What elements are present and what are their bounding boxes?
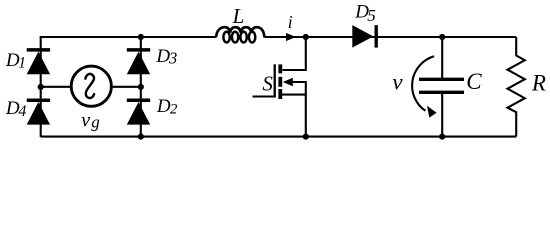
wire bottom rail xyxy=(41,136,517,138)
diode D1 xyxy=(27,50,50,74)
diode D2 xyxy=(127,100,150,124)
svg-text:i: i xyxy=(288,12,293,32)
diode D5 xyxy=(352,25,376,47)
svg-text:S: S xyxy=(262,71,273,95)
node A junction dot top xyxy=(303,34,309,40)
inductor L xyxy=(216,27,265,42)
wire bridge right rail xyxy=(140,37,142,137)
svg-text:R: R xyxy=(531,71,546,96)
label D5 xyxy=(354,2,376,26)
current arrow i xyxy=(286,33,296,41)
resistor R xyxy=(508,37,525,137)
node junction dot D3 top xyxy=(138,34,144,40)
svg-text:2: 2 xyxy=(170,101,178,117)
voltage arrow v xyxy=(412,56,437,117)
node junction dot bridge mid right xyxy=(138,84,144,90)
ac source vg xyxy=(71,66,111,106)
svg-text:4: 4 xyxy=(18,103,26,120)
diode D4 xyxy=(27,100,50,124)
capacitor C xyxy=(419,37,464,137)
node junction dot cap top xyxy=(439,34,445,40)
label D1 xyxy=(5,50,26,71)
svg-text:D: D xyxy=(156,96,171,117)
node junction dot bridge mid left xyxy=(38,84,44,90)
svg-text:1: 1 xyxy=(18,54,26,71)
node junction dot cap bottom xyxy=(439,134,445,140)
svg-text:5: 5 xyxy=(367,6,376,25)
wire middle right segment xyxy=(111,86,141,88)
label vg xyxy=(81,110,100,132)
svg-text:v: v xyxy=(81,110,90,132)
diode D3 xyxy=(127,50,150,74)
wire top rail xyxy=(41,36,517,38)
wire middle left segment xyxy=(41,86,70,88)
mosfet S xyxy=(253,37,306,137)
svg-text:C: C xyxy=(466,69,482,94)
svg-text:g: g xyxy=(91,113,100,132)
svg-text:3: 3 xyxy=(168,48,177,67)
label D2 xyxy=(156,96,178,117)
svg-text:v: v xyxy=(392,69,403,94)
node junction dot D2 bottom xyxy=(138,134,144,140)
label D3 xyxy=(155,46,177,68)
node junction dot mosfet source bottom xyxy=(303,134,309,140)
label D4 xyxy=(5,98,27,120)
svg-text:L: L xyxy=(232,4,245,28)
wire left rail xyxy=(40,36,42,137)
